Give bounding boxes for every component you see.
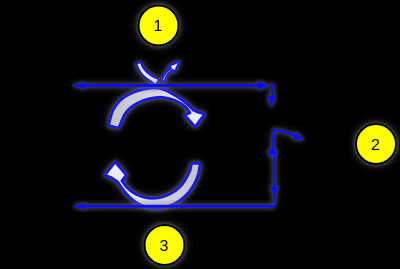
svg-text:3: 3 [160, 238, 169, 255]
field line left tusk above top wire [137, 62, 159, 85]
wire top horizontal [73, 81, 271, 89]
wire right lower vertical [270, 156, 278, 205]
svg-text:1: 1 [154, 18, 163, 35]
arrowhead down on upper right wire [268, 96, 276, 108]
marker circle 3 [145, 225, 185, 265]
field line right arrow above top wire [162, 61, 180, 81]
arrowhead down on lower right wire [270, 187, 278, 198]
switch pivot dot [268, 149, 276, 157]
svg-text:2: 2 [371, 137, 380, 154]
big clockwise arrow, top crescent [109, 88, 205, 128]
switch blade [268, 130, 304, 158]
marker circle 1 [139, 6, 179, 46]
switch opening arc with arrowhead [274, 130, 295, 136]
wire bottom horizontal [73, 203, 275, 210]
arrowhead left end of top wire [73, 82, 86, 89]
marker circle 2 [356, 124, 396, 164]
arrowhead right end of top wire [258, 81, 271, 89]
wire right upper vertical [268, 84, 276, 108]
arrowhead left end of bottom wire [73, 203, 86, 210]
big clockwise arrow, bottom crescent [105, 162, 200, 208]
